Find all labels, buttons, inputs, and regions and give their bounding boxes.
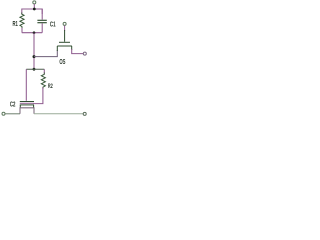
terminal T4 (bottom left)	[2, 112, 5, 115]
wire: horizontal split rail	[26, 68, 44, 70]
node: junction dot below R1/C1	[33, 31, 36, 34]
svg-text:R1: R1	[13, 19, 18, 28]
terminal T2 (gate input)	[63, 22, 66, 25]
terminal T1 (top input)	[33, 1, 36, 4]
wire: top horizontal rail of R1/C1	[22, 9, 42, 14]
svg-text:R2: R2	[48, 83, 53, 90]
svg-text:C1: C1	[50, 19, 56, 28]
wire: horizontal to OS source	[34, 50, 57, 57]
wire: R2 bottom lead to C2 bottom plate	[34, 88, 43, 104]
node: junction dot at top	[33, 8, 36, 11]
terminal T5 (bottom right)	[83, 112, 86, 115]
wire: bottom rail right	[34, 113, 83, 115]
wire: drain to output terminal	[72, 49, 84, 54]
svg-text:C2: C2	[10, 100, 16, 109]
wire: stub from T1 to top node	[33, 4, 35, 9]
wire: center vertical from R1/C1 node down	[33, 33, 35, 69]
wire: gate lead	[64, 26, 66, 32]
capacitor C1	[41, 9, 43, 20]
wire: right drop to R2	[43, 69, 45, 73]
wire: bottom rail of R1/C1	[22, 32, 42, 34]
node: junction to transistor branch	[33, 55, 36, 58]
transistor OS (MOS-style: gate bar over channel bar)	[64, 30, 66, 42]
resistor R2	[41, 73, 45, 90]
wire: bottom rail left	[5, 113, 20, 115]
terminal T3 (right output)	[83, 52, 86, 55]
svg-text:OS: OS	[59, 57, 65, 66]
node: junction dot at split to R2/C2	[33, 68, 36, 71]
resistor R1	[20, 13, 24, 29]
capacitor C2 (polarized, plate + boxed plate)	[20, 101, 34, 103]
wire: left drop to C2	[25, 69, 27, 101]
wire: ground bump under C2	[20, 108, 34, 114]
wire: R1 bottom lead	[21, 28, 23, 33]
